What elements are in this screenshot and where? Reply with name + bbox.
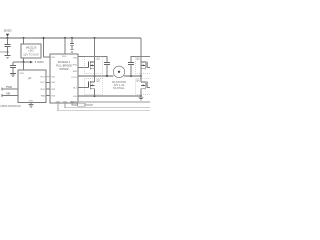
wire to off-page left	[0, 51, 8, 53]
node 5.0VDC label arrow	[30, 60, 44, 64]
svg-text:RC1: RC1	[41, 82, 46, 84]
svg-text:DRIVER: DRIVER	[59, 68, 68, 71]
driver U3 MC33931 full-bridge box	[50, 54, 78, 103]
junction 5V tee	[23, 61, 25, 63]
junction source return at FET leg	[94, 95, 96, 97]
wire bootstrap link to C5	[131, 56, 150, 62]
wire GND pin 3 feedback	[72, 103, 93, 105]
wire rail drop left half-bridge	[94, 38, 96, 62]
ground GND4	[70, 50, 74, 53]
wire bootstrap VB1 to C4	[78, 56, 107, 62]
junction on rail at bypass cap	[71, 37, 73, 39]
svg-text:12V TO 5.0V: 12V TO 5.0V	[23, 53, 39, 57]
wire 5V to microcontroller VDD	[23, 62, 25, 70]
junction on rail at driver VDD	[64, 37, 66, 39]
junction on rail at LDO input	[23, 37, 25, 39]
transistor Q2 dashed cell	[84, 76, 103, 96]
junction node battery return	[7, 51, 9, 53]
wire VSS stub	[30, 103, 32, 105]
svg-text:DIR: DIR	[6, 93, 10, 96]
label motor ratings	[112, 80, 126, 90]
wire GH1 gate drive	[78, 67, 89, 69]
svg-text:FROM CONTROLS: FROM CONTROLS	[1, 106, 22, 108]
transistor Q4 dashed cell	[136, 76, 155, 96]
svg-text:VDD: VDD	[62, 56, 67, 58]
wire 5V net	[13, 61, 30, 63]
resistor R1	[78, 103, 86, 106]
svg-text:LDO: LDO	[28, 49, 33, 53]
wire driver VDD stub	[64, 38, 66, 54]
junction on rail at left half-bridge	[94, 37, 96, 39]
wire LDO input drop	[23, 38, 25, 44]
svg-text:RC0: RC0	[41, 89, 46, 91]
svg-text:12VDC: 12VDC	[3, 28, 11, 32]
transistor Q3 dashed cell	[136, 56, 155, 76]
capacitor C3 bypass	[70, 38, 74, 50]
svg-text:5.0VDC: 5.0VDC	[35, 60, 44, 64]
svg-text:EN: EN	[52, 57, 55, 59]
junction on rail at supply entry	[7, 37, 9, 39]
junction left node at C4	[106, 75, 108, 77]
transistor Q1 dashed cell	[84, 56, 103, 76]
junction right node at FET leg	[140, 75, 142, 77]
svg-text:RC2: RC2	[41, 77, 46, 79]
motor M1	[113, 66, 124, 77]
wire GND pin 1 line	[58, 103, 150, 111]
microcontroller U2 box	[18, 70, 46, 103]
svg-text:VDD: VDD	[20, 73, 25, 75]
wire GND pin 2 line	[65, 103, 150, 108]
svg-text:µC: µC	[28, 76, 32, 80]
capacitor C2	[10, 62, 16, 73]
capacitor C1	[5, 45, 11, 52]
wire PWM input	[2, 88, 18, 91]
wire GL1 gate drive	[78, 87, 89, 89]
wire SLEW line	[78, 101, 150, 103]
node VBAT 12VDC supply label	[3, 28, 11, 38]
junction on rail at VPWR drop	[43, 37, 45, 39]
wire IN4 link	[46, 95, 50, 97]
wire 12V power rail	[0, 37, 141, 39]
wire IN1 link	[46, 76, 50, 78]
wire LSS source return	[78, 95, 141, 97]
junction right node at C5	[130, 75, 132, 77]
svg-text:PWM: PWM	[6, 86, 12, 89]
wire VPWR drop from rail to driver	[44, 38, 51, 57]
wire rail drop right half-bridge	[140, 38, 142, 63]
svg-text:GH1: GH1	[73, 64, 78, 66]
ground GND3	[29, 105, 34, 108]
junction left node at FET leg	[94, 75, 96, 77]
wire DIR input	[2, 94, 18, 97]
svg-text:VSS: VSS	[29, 100, 34, 102]
wire IN3 link	[46, 88, 50, 90]
ground GND1	[5, 52, 11, 59]
capacitor C4	[104, 63, 110, 76]
svg-text:5A STALL: 5A STALL	[113, 86, 125, 90]
wire right motor node	[124, 75, 141, 77]
junction source return at right leg	[140, 95, 142, 97]
wire input cap branch	[7, 38, 9, 44]
svg-text:OUT1: OUT1	[71, 77, 78, 79]
wire SH1 motor node	[78, 75, 113, 77]
ground GND5	[139, 96, 144, 100]
capacitor C5	[128, 63, 134, 76]
wire IN2 link	[46, 81, 50, 83]
regulator U1 MIC5219 LDO box	[21, 44, 41, 58]
wire LDO output stub	[23, 58, 25, 62]
ground GND2	[10, 73, 16, 76]
svg-text:LSS: LSS	[73, 96, 78, 98]
